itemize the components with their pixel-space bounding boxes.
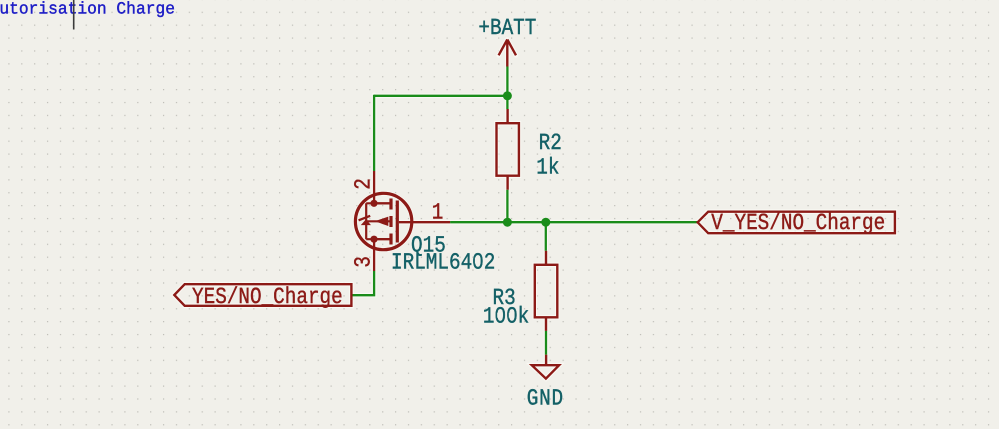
resistor R3	[535, 251, 558, 331]
Q15 bottom connector	[374, 238, 391, 240]
Q15 top connector	[374, 202, 391, 204]
wire from YES/NO_Charge label	[351, 271, 374, 295]
wire top horizontal	[374, 95, 507, 97]
svg-text:utorisation Charge: utorisation Charge	[0, 0, 175, 19]
svg-text:GND: GND	[527, 385, 564, 411]
resistor R2	[497, 109, 519, 190]
power symbol +BATT	[499, 40, 516, 67]
wire R2 bottom stub	[506, 190, 508, 222]
text cursor	[73, 0, 75, 30]
wire R3 top stub	[545, 222, 547, 251]
Q15 envelope circle	[355, 193, 411, 249]
wire main horizontal net	[450, 221, 697, 223]
Q15 source junction dot	[370, 200, 377, 207]
wire R3 bottom stub	[545, 331, 547, 355]
zero glyph dot covers	[475, 258, 514, 318]
wire R2 top stub	[506, 96, 508, 109]
wire left vertical to Q15 source	[373, 95, 375, 171]
global label V_YES/NO_Charge	[698, 212, 895, 234]
svg-text:V_YES/NO_Charge: V_YES/NO_Charge	[711, 210, 885, 236]
svg-text:IRLML6402: IRLML6402	[391, 249, 495, 275]
junction at +BATT/R2	[503, 91, 512, 100]
svg-text:1k: 1k	[536, 155, 559, 181]
svg-text:3: 3	[350, 256, 376, 268]
wire +BATT stem	[506, 67, 508, 96]
Q15 gate bar	[396, 201, 399, 243]
Q15 channel segments	[389, 199, 392, 245]
Q15 gate pin	[399, 221, 450, 223]
ground GND	[532, 355, 559, 379]
Q15 pin 2 stub	[373, 171, 375, 203]
svg-text:2: 2	[350, 178, 376, 190]
svg-text:YES/NO_Charge: YES/NO_Charge	[192, 284, 343, 310]
Q15 body line	[366, 203, 374, 239]
Q15 middle connector	[366, 220, 391, 222]
Q15 drain junction dot	[370, 236, 377, 243]
svg-text:+BATT: +BATT	[478, 15, 536, 41]
svg-text:100k: 100k	[483, 304, 529, 330]
svg-text:R2: R2	[539, 130, 562, 156]
global label YES/NO_Charge	[174, 284, 351, 306]
Q15 arrow	[375, 217, 389, 226]
junction at R3	[541, 218, 550, 227]
transistor Q15 body	[355, 171, 450, 271]
Q15 pin 3 stub	[373, 239, 375, 271]
svg-text:1: 1	[432, 199, 444, 225]
halo underlay (screenshot sharpening artifact)	[174, 40, 895, 379]
junction at R2	[503, 218, 512, 227]
Q15 body diode	[361, 219, 371, 225]
